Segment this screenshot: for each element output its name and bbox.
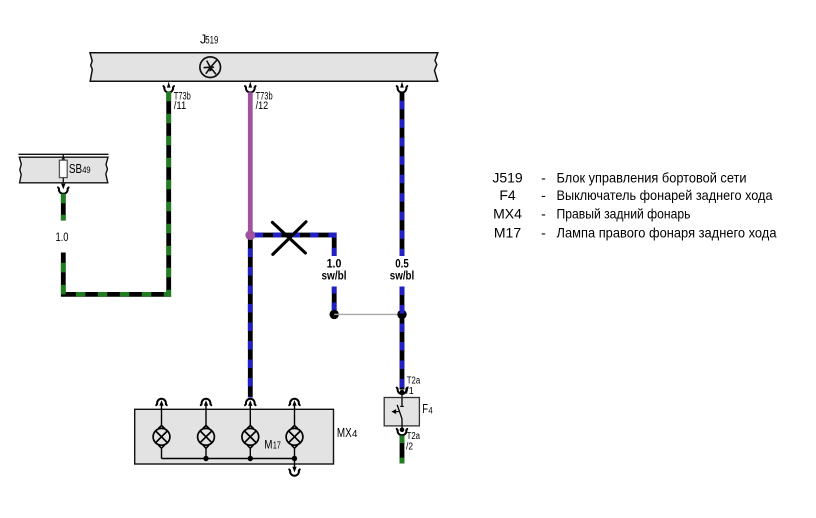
wire to F4 lower segment (black/blue) — [400, 287, 405, 390]
svg-text:/1: /1 — [406, 386, 414, 397]
legend row F4 — [499, 187, 772, 203]
junction dot lamp4 — [292, 456, 297, 461]
wire SB49 to J519 T73b/11 (black/green) — [63, 92, 168, 295]
label MX4 — [337, 426, 358, 440]
svg-text:Выключатель фонарей заднего хо: Выключатель фонарей заднего хода — [557, 187, 773, 203]
svg-text:49: 49 — [82, 165, 90, 176]
switch F4 box — [384, 398, 419, 426]
junction dot lamp2 — [203, 456, 208, 461]
bulb lamp 2 — [198, 425, 215, 448]
label SB49 — [69, 162, 91, 176]
terminal T73b/12 on J519 — [245, 82, 256, 93]
label F4 — [422, 402, 432, 416]
svg-text:/12: /12 — [256, 100, 269, 112]
terminal T2a/1 on F4 — [397, 388, 408, 398]
terminal below SB49 — [58, 184, 69, 194]
terminal T2a/2 on F4 — [397, 426, 408, 435]
terminal lamp M17 — [245, 399, 256, 410]
svg-text:J519: J519 — [492, 170, 523, 186]
svg-text:-: - — [541, 224, 546, 240]
svg-text:519: 519 — [205, 35, 218, 47]
legend row MX4 — [493, 206, 690, 222]
svg-text:-: - — [541, 187, 546, 203]
svg-text:M: M — [264, 438, 272, 452]
svg-text:-: - — [541, 170, 546, 186]
svg-text:-: - — [541, 206, 546, 222]
wire junction to lamp M17 (black/blue) — [248, 235, 253, 398]
svg-text:4: 4 — [428, 405, 432, 416]
internal connection symbol (circle with star) in J519 — [200, 57, 221, 78]
terminal lamp 2 — [201, 399, 212, 410]
control unit bar J519 — [90, 53, 438, 81]
wire below F4 (green/black) — [400, 436, 405, 464]
svg-text:1.0: 1.0 — [56, 230, 69, 244]
wire stub lower segment (black/blue) — [332, 287, 337, 313]
junction dot M17 — [248, 456, 253, 461]
svg-text:sw/bl: sw/bl — [322, 271, 347, 283]
pin label T73b/11 — [174, 91, 191, 113]
svg-text:MX4: MX4 — [493, 206, 522, 222]
bulb lamp 1 — [153, 425, 170, 448]
svg-text:17: 17 — [273, 441, 281, 452]
pin label T2a/2 — [406, 431, 420, 452]
bulb lamp 4 wiring — [294, 409, 296, 464]
wire from SB49 upper segment (black/green) — [61, 194, 66, 221]
bulb lamp 1 wiring — [161, 409, 163, 458]
label M17 — [264, 438, 281, 452]
bulb lamp 2 wiring — [205, 409, 207, 458]
svg-text:/2: /2 — [406, 441, 413, 452]
svg-text:4: 4 — [352, 429, 358, 440]
legend row M17 — [494, 224, 777, 240]
svg-text:F: F — [422, 402, 428, 416]
fuse panel rail line above SB49 — [19, 153, 109, 155]
svg-text:1.0: 1.0 — [327, 259, 342, 271]
wire size label 1.0 — [56, 230, 69, 244]
junction node (violet) — [245, 230, 255, 240]
pin label T73b/12 — [256, 91, 273, 113]
wire T73b/12 violet — [248, 92, 253, 233]
svg-text:/11: /11 — [174, 100, 187, 112]
terminal lamp 4 — [289, 399, 300, 410]
label J519 — [200, 33, 218, 47]
svg-text:Лампа правого фонаря заднего х: Лампа правого фонаря заднего хода — [557, 224, 777, 240]
legend row J519 — [492, 170, 746, 186]
svg-text:SB: SB — [69, 162, 82, 176]
bulb M17 wiring — [249, 409, 251, 458]
svg-text:0.5: 0.5 — [395, 259, 409, 271]
svg-text:F4: F4 — [499, 187, 516, 203]
svg-text:Правый задний фонарь: Правый задний фонарь — [557, 206, 691, 222]
switch F4 contact symbol — [391, 398, 403, 426]
bulb M17 — [242, 425, 259, 448]
terminal on J519 to F4 wire — [397, 82, 408, 93]
connector box MX4 — [135, 409, 334, 464]
wire label 1.0 sw/bl — [322, 259, 347, 283]
pin label T2a/1 — [406, 376, 420, 398]
junction node right — [397, 310, 406, 319]
ground terminal below MX4 — [289, 464, 300, 476]
svg-text:MX: MX — [337, 426, 352, 440]
wire junction to open stub (black/blue) — [252, 235, 334, 256]
bus wire inside MX4 — [162, 458, 295, 460]
svg-text:sw/bl: sw/bl — [390, 271, 415, 283]
junction node left — [330, 310, 339, 319]
svg-text:Блок управления бортовой сети: Блок управления бортовой сети — [557, 170, 747, 186]
terminal lamp 1 — [156, 399, 167, 410]
fuse SB49 — [59, 154, 67, 183]
terminal T73b/11 on J519 — [163, 82, 174, 93]
svg-text:M17: M17 — [494, 224, 521, 240]
wire J519 to F4 upper (black/blue) — [400, 92, 405, 256]
bulb lamp 4 — [286, 425, 303, 448]
svg-text:T2a: T2a — [407, 376, 421, 387]
wire label 0.5 sw/bl — [390, 259, 415, 283]
crossed-out connection X — [272, 222, 306, 255]
fuse panel bar SB — [19, 157, 108, 183]
link line (gray) between junctions — [334, 313, 402, 315]
